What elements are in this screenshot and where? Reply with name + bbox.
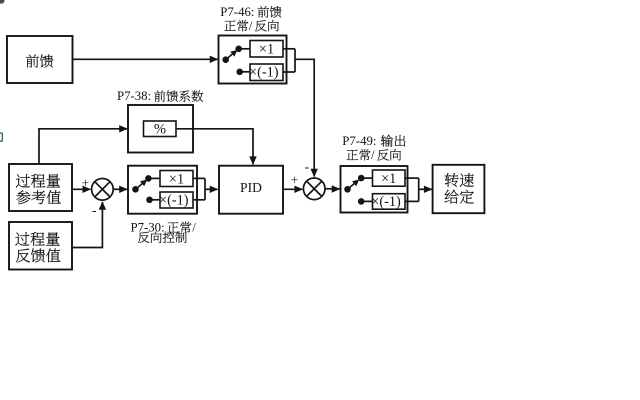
P7-49 output bracket — [405, 178, 419, 201]
wire 参考值 to summing junction 1 — [72, 186, 91, 193]
label P7-49: 输出 正常/反向 — [342, 134, 405, 162]
gain box ×1 (P7-30) — [160, 171, 193, 188]
P7-30 wire upper contact to ×1 — [148, 177, 160, 179]
wire P7-49 to 转速给定 — [419, 186, 433, 193]
P7-46 wire lower contact to ×(-1) — [240, 71, 250, 73]
P7-46 wire upper contact to ×1 — [239, 48, 250, 50]
P7-49 switch arm — [349, 177, 361, 188]
svg-text:×1: ×1 — [259, 42, 274, 58]
svg-text:-: - — [305, 159, 310, 174]
top-left corner artifact — [0, 0, 5, 4]
P7-46 lower contact dot — [236, 69, 243, 76]
left edge blue artifact — [0, 133, 2, 141]
wire branch from 参考值 to P7-38 — [39, 125, 128, 163]
svg-text:P7-46:: P7-46: — [220, 5, 254, 19]
svg-text:×(-1): ×(-1) — [159, 192, 189, 208]
switch block P7-30 outer box — [128, 166, 197, 214]
wire PID to summing junction 2 — [283, 186, 303, 193]
gain box ×1 (P7-46) — [250, 41, 283, 58]
wire P7-46 to summing junction 2 — [295, 59, 318, 177]
wire summing junction 2 to P7-49 — [325, 185, 340, 192]
summing junction 2 — [303, 178, 325, 200]
P7-30 wire lower contact to ×(-1) — [150, 199, 161, 201]
switch block P7-46 outer box — [219, 36, 287, 84]
svg-text:+: + — [81, 176, 89, 191]
gain box ×(-1) (P7-49) — [371, 194, 405, 210]
wire summing junction 1 to P7-30 — [113, 186, 128, 193]
minus sign at summing junction 1 — [92, 202, 97, 217]
feedback wire to summing junction 1 — [72, 201, 106, 247]
svg-text:P7-49:: P7-49: — [342, 134, 376, 148]
P7-49 wire upper contact to ×1 — [361, 177, 372, 179]
process feedback box 过程量反馈值 — [9, 222, 72, 270]
P7-30 upper contact dot — [145, 175, 152, 182]
label P7-46: 前馈 正常/反向 — [220, 5, 281, 33]
wire 前馈 to P7-46 switch — [73, 56, 219, 63]
svg-text:-: - — [92, 202, 97, 217]
gain box % (P7-38) — [144, 121, 177, 138]
P7-49 lower contact dot — [358, 198, 365, 205]
plus sign at summing junction 1 — [81, 176, 89, 191]
P7-30 lower contact dot — [146, 197, 153, 204]
speed reference box 转速给定 — [433, 165, 485, 213]
PID controller box — [219, 166, 283, 214]
label P7-30: 正常/反向控制 — [131, 220, 197, 243]
wire P7-38 to PID top — [176, 129, 257, 165]
gain box ×(-1) (P7-30) — [159, 192, 193, 208]
P7-30 output bracket — [193, 178, 205, 199]
P7-46 switch arm — [228, 47, 240, 58]
svg-text:/: / — [249, 19, 253, 33]
process reference box 过程量参考值 — [9, 164, 72, 211]
gain box ×(-1) (P7-46) — [249, 64, 283, 81]
P7-49 wire lower contact to ×(-1) — [361, 200, 372, 202]
svg-text:×(-1): ×(-1) — [371, 194, 401, 210]
P7-46 output bracket — [283, 49, 295, 72]
svg-text:PID: PID — [240, 180, 262, 195]
plus sign at summing junction 2 — [291, 172, 299, 187]
feedforward input box 前馈 — [7, 36, 73, 83]
svg-text:/: / — [192, 220, 196, 234]
P7-49 upper contact dot — [358, 175, 365, 182]
svg-text:%: % — [154, 122, 166, 138]
svg-text:/: / — [371, 148, 375, 162]
wire P7-30 to PID — [205, 186, 218, 193]
svg-text:×1: ×1 — [169, 171, 184, 187]
P7-30 switch arm — [137, 177, 149, 188]
svg-text:P7-38:: P7-38: — [117, 89, 151, 103]
gain box ×1 (P7-49) — [373, 170, 406, 187]
summing junction 1 — [92, 179, 114, 201]
svg-text:×(-1): ×(-1) — [249, 65, 279, 81]
P7-30 input node dot — [132, 186, 139, 193]
P7-46 input node dot — [222, 56, 229, 63]
svg-text:×1: ×1 — [381, 171, 396, 187]
svg-text:+: + — [291, 172, 299, 187]
label P7-38: 前馈系数 — [117, 89, 203, 103]
P7-49 input node dot — [344, 186, 351, 193]
coefficient block P7-38 outer box — [128, 105, 193, 153]
switch block P7-49 outer box — [341, 166, 408, 213]
minus sign at summing junction 2 — [305, 159, 310, 174]
P7-46 upper contact dot — [235, 46, 242, 53]
